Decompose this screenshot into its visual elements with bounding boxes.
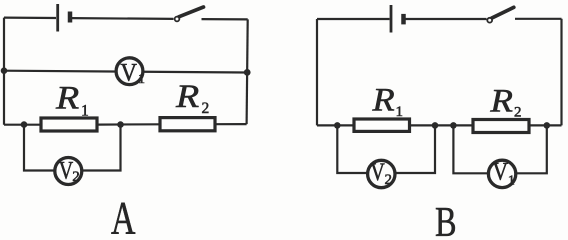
wire: B V2 loop left — [337, 125, 368, 173]
wire: A switch right contact to top-right corner — [202, 18, 248, 20]
wire: B switch right contact to top-right corner — [515, 18, 562, 20]
resistor R2 (A) — [160, 118, 215, 131]
wire: A top from battery to switch pivot — [72, 17, 174, 20]
svg-text:A: A — [111, 193, 136, 238]
junction dot A middle-row right — [244, 69, 251, 76]
label R1 (A) — [55, 79, 89, 120]
junction dot A left of R1 — [21, 121, 28, 128]
svg-text:1: 1 — [81, 103, 89, 120]
wire: B between R1 and R2 — [410, 124, 474, 126]
switch S (B) — [487, 7, 513, 22]
junction dot B right of R1 — [432, 122, 439, 129]
battery (cell) A — [58, 4, 70, 32]
junction dot A middle-row left — [1, 67, 8, 74]
resistor R1 (A) — [41, 118, 97, 131]
wire: B top-left from corner to battery — [317, 18, 390, 20]
wire: A top-left from corner to battery — [4, 17, 56, 20]
svg-text:1: 1 — [508, 174, 515, 189]
voltmeter V2 (A) — [55, 156, 82, 185]
switch S (A) — [175, 7, 204, 21]
wire: B from R2 to right corner — [529, 124, 562, 126]
wire: A middle (voltmeter V1 row) — [4, 71, 247, 73]
voltmeter V1 (B) — [488, 158, 515, 189]
svg-text:V: V — [370, 158, 385, 186]
svg-text:R: R — [489, 82, 513, 119]
voltmeter V1 (A) — [116, 58, 145, 87]
voltmeter V2 (B) — [368, 158, 395, 188]
junction dot A right of R1 — [117, 121, 124, 128]
wire: A left vertical — [3, 18, 5, 125]
svg-text:1: 1 — [138, 72, 145, 87]
wire: A between R1 and R2 — [97, 123, 160, 125]
wire: B right vertical — [560, 19, 562, 126]
label R1 (B) — [371, 81, 403, 120]
wire: B left vertical — [316, 19, 318, 125]
svg-text:R: R — [55, 79, 80, 116]
svg-text:R: R — [371, 81, 394, 118]
junction dot B left of R2 — [450, 122, 457, 129]
svg-text:2: 2 — [72, 169, 80, 185]
svg-text:V: V — [493, 158, 509, 186]
junction dot B left of R1 — [334, 122, 341, 129]
svg-text:1: 1 — [396, 104, 404, 120]
battery (cell) B — [391, 5, 404, 33]
resistor R2 (B) — [473, 120, 529, 133]
label R2 (B) — [489, 82, 521, 120]
label R2 (A) — [175, 77, 209, 116]
wire: B resistor row left — [317, 124, 354, 126]
wire: B top from battery to switch pivot — [405, 18, 487, 20]
svg-text:2: 2 — [514, 104, 522, 120]
wire: A right vertical — [247, 19, 248, 124]
wire: A V2 loop right — [82, 125, 121, 171]
wire: B V1 loop right — [516, 125, 547, 173]
svg-text:V: V — [120, 60, 137, 87]
wire: B V2 loop right — [396, 125, 436, 173]
svg-text:2: 2 — [202, 100, 210, 117]
wire: A from R2 to right corner — [215, 123, 247, 125]
wire: A resistor row — [4, 124, 41, 126]
wire: A V2 loop left — [24, 125, 56, 171]
svg-text:R: R — [175, 77, 200, 114]
svg-text:B: B — [435, 199, 457, 238]
svg-text:2: 2 — [385, 172, 393, 188]
junction dot B right of R2 — [544, 122, 551, 129]
resistor R1 (B) — [354, 119, 410, 131]
wire: B V1 loop left — [453, 125, 488, 173]
